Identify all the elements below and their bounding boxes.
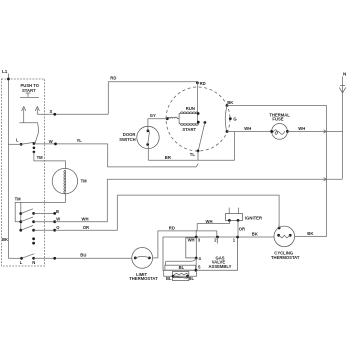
svg-text:TM: TM [37, 155, 44, 160]
timer contact row B right dot [32, 212, 35, 215]
winding junction dots [197, 112, 200, 115]
svg-text:3: 3 [198, 238, 201, 243]
svg-text:ASSEMBLY: ASSEMBLY [209, 264, 232, 269]
cycling thermostat contacts [277, 234, 280, 237]
wire flame switch to terminal 5 [188, 270, 197, 276]
svg-text:L: L [16, 138, 19, 143]
wire main row W [34, 143, 108, 145]
svg-text:RD: RD [169, 225, 175, 230]
wire OR igniter to terminal 1 [237, 220, 239, 237]
svg-text:YL: YL [77, 138, 83, 143]
junction WH/BR [234, 132, 236, 161]
motor RUN winding [179, 112, 198, 114]
svg-text:G: G [233, 117, 236, 122]
start switch linkage bar [19, 123, 38, 144]
wire OR long run [117, 195, 279, 228]
igniter box [225, 214, 242, 221]
svg-text:L1: L1 [2, 69, 8, 74]
svg-text:WH: WH [82, 217, 89, 222]
wire RD top run [108, 82, 197, 115]
motor BK terminal dot [226, 104, 229, 107]
BL coil box A [165, 265, 196, 270]
svg-text:BK: BK [252, 232, 258, 237]
wire row B [34, 212, 55, 214]
wire BU from line switch [34, 257, 132, 259]
svg-text:TM: TM [15, 196, 22, 201]
motor circle [166, 87, 230, 151]
svg-text:RD: RD [200, 81, 206, 86]
svg-text:THERMOSTAT: THERMOSTAT [129, 276, 158, 281]
wire GY door switch to motor [148, 119, 167, 131]
motor WH terminal dot [226, 130, 229, 133]
svg-text:GY: GY [150, 113, 156, 118]
line switch contact N dot [32, 257, 35, 260]
svg-text:4: 4 [199, 256, 202, 261]
svg-text:2: 2 [214, 238, 217, 243]
timer contact row W right dot [32, 220, 35, 223]
wire terminal 4 to BL coil [165, 258, 196, 265]
wire RD from limit thermostat to valve [153, 231, 217, 258]
svg-text:WH: WH [244, 126, 251, 131]
valve terminal 3 dot [195, 236, 198, 239]
motor GY terminal dot [166, 117, 169, 120]
wire BK cycling thermostat to rail [295, 235, 327, 237]
timer contact row W blade [21, 217, 33, 222]
flame switch right dot [186, 275, 189, 278]
contact stack dots [33, 142, 36, 145]
door switch top dot [147, 129, 150, 132]
svg-text:TM: TM [81, 179, 88, 184]
wire WH from motor to thermal fuse [227, 131, 272, 133]
svg-text:1: 1 [233, 238, 236, 243]
flame switch bracket [173, 278, 189, 281]
svg-text:START: START [182, 127, 196, 132]
wire L1 to line switch [8, 257, 21, 259]
cycling thermostat edge dot [278, 227, 281, 230]
limit thermostat blade [135, 256, 149, 258]
wire L1 to L contact [8, 143, 21, 145]
motor winding left edge [178, 114, 180, 124]
svg-text:O: O [56, 225, 60, 230]
wire BK valve rail to cycling thermostat [163, 236, 274, 238]
limit thermostat circle [132, 248, 153, 269]
switch blade L [21, 142, 35, 144]
svg-text:WH: WH [188, 238, 195, 243]
wire TL stub [197, 151, 199, 160]
valve terminal 2 stub down [217, 237, 219, 244]
svg-text:OR: OR [239, 227, 245, 232]
BK vertical rail [326, 106, 328, 237]
flame switch left dot [172, 275, 175, 278]
junction L1 at box top [7, 78, 10, 81]
igniter terminal dots [228, 219, 231, 222]
svg-text:TL: TL [190, 152, 196, 157]
wire WH thermal fuse to N rail [287, 130, 342, 132]
thermal fuse squiggle [273, 130, 285, 134]
svg-text:START: START [22, 88, 36, 93]
valve terminal 2 dot [216, 236, 219, 239]
cycling thermostat blade [279, 235, 291, 238]
wire row W to terminal [34, 221, 55, 223]
svg-text:W: W [49, 139, 53, 144]
start switch pivot dot [204, 121, 207, 124]
wire YL to TL [108, 144, 199, 167]
connector arrow at WH2/BK crossing [324, 178, 327, 181]
svg-text:THERMOSTAT: THERMOSTAT [271, 255, 300, 260]
arrow left of start switch [22, 106, 26, 122]
igniter pins [229, 208, 238, 214]
wire contact stack to timer motor [34, 152, 66, 169]
valve coil WH box [186, 238, 197, 258]
flame switch blade [173, 276, 187, 278]
wire OR from timer [55, 195, 118, 230]
motor internal start blade [198, 123, 205, 151]
svg-text:FUSE: FUSE [272, 116, 283, 121]
centrifugal switch blade [225, 106, 227, 132]
flame switch feed [164, 270, 173, 276]
cycling thermostat circle [274, 226, 295, 247]
timer contact row O blade [21, 226, 33, 231]
thermal fuse circle [272, 123, 288, 139]
svg-text:WH: WH [298, 126, 305, 131]
wire BR row [148, 159, 234, 161]
motor START winding [179, 124, 198, 126]
motor protector squiggle [167, 117, 179, 119]
svg-text:BL: BL [166, 276, 172, 281]
valve terminal 4 dot [195, 257, 198, 260]
svg-text:W: W [56, 217, 60, 222]
svg-text:IGNITER: IGNITER [245, 215, 262, 220]
wire L1 vertical BK [7, 74, 9, 259]
contact L dot [20, 143, 23, 146]
timer contact row B blade [21, 209, 33, 214]
svg-text:BU: BU [80, 253, 86, 258]
svg-text:RUN: RUN [186, 106, 195, 111]
wire S from start switch [37, 113, 108, 115]
timer contact row W left dot [19, 220, 22, 223]
thermal fuse terminal dots [270, 130, 273, 133]
flame switch coil box C [173, 271, 189, 276]
wire timer motor bottom to contact feed [15, 193, 65, 222]
timer contact feed vertical [20, 202, 22, 230]
svg-text:BK: BK [307, 231, 313, 236]
svg-text:BL: BL [179, 265, 185, 270]
flame coil squiggle [174, 273, 188, 275]
valve terminal 5 vertical [195, 258, 197, 270]
motor G contact dot [229, 117, 232, 120]
wire WH2 long run [107, 178, 342, 180]
wire door switch down BR [147, 146, 149, 160]
svg-text:S: S [50, 109, 53, 114]
limit thermostat contacts [134, 257, 137, 260]
motor TL terminal dot [197, 150, 200, 153]
door switch bottom dot [146, 143, 149, 146]
N rail with arrow [339, 77, 345, 179]
svg-text:SWITCH: SWITCH [119, 137, 136, 142]
door switch blade [148, 132, 150, 145]
timer contact row O right dot [32, 229, 35, 232]
line switch blade [22, 254, 35, 259]
svg-text:OR: OR [83, 225, 89, 230]
unused contact dots [32, 237, 35, 240]
door switch circle [137, 126, 159, 148]
svg-text:BL: BL [189, 276, 195, 281]
timer motor coil [64, 170, 66, 194]
svg-text:5: 5 [198, 264, 201, 269]
line switch contact L dot [20, 257, 23, 260]
svg-text:N: N [32, 260, 35, 265]
motor RD entry dot [196, 81, 199, 84]
wire BK from motor to right [227, 105, 327, 107]
timer motor TM circle [52, 168, 77, 193]
svg-text:B: B [56, 209, 59, 214]
wire row O to terminal [34, 229, 55, 231]
push button symbol [20, 93, 39, 98]
gas valve box [163, 237, 238, 270]
timer box outline [2, 79, 45, 266]
svg-text:N: N [343, 72, 347, 77]
svg-text:BR: BR [165, 155, 171, 160]
svg-text:BK: BK [227, 100, 233, 105]
valve terminal 1 dot [236, 236, 239, 239]
wire RD into motor [196, 82, 198, 122]
svg-text:RD: RD [110, 76, 116, 81]
timer contact row O left dot [19, 229, 22, 232]
wire WH igniter to valve [195, 220, 229, 231]
svg-text:L: L [20, 260, 23, 265]
terminal BU dot [53, 257, 56, 260]
svg-text:WH: WH [206, 219, 213, 224]
timer contact row B left dot [19, 212, 22, 215]
connector arrow at BK crossing [324, 130, 327, 133]
valve terminal 5 dot [195, 269, 198, 272]
valve terminal 3 stub [195, 231, 197, 237]
svg-text:BK: BK [2, 237, 8, 242]
arrow right of start switch [35, 106, 39, 114]
wire WH from timer [55, 179, 108, 222]
